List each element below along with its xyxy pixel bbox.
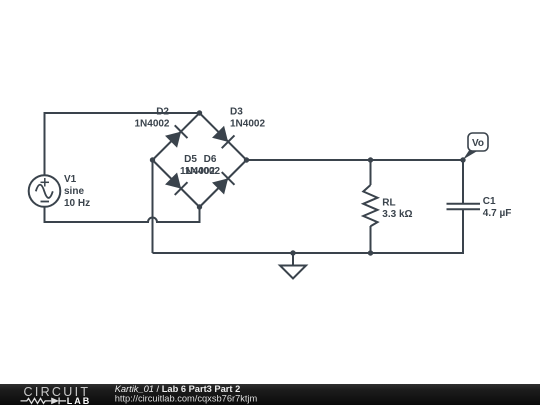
svg-text:3.3 kΩ: 3.3 kΩ: [382, 209, 412, 220]
svg-text:1N4002: 1N4002: [230, 119, 265, 130]
voltage source V1: [29, 175, 61, 207]
wire V1 top to bridge top: [45, 113, 200, 175]
svg-text:10 Hz: 10 Hz: [64, 198, 90, 209]
svg-text:D2: D2: [156, 107, 169, 118]
svg-text:4.7 µF: 4.7 µF: [483, 208, 512, 219]
svg-text:RL: RL: [382, 197, 395, 208]
footer bar: [0, 384, 540, 405]
capacitor C1 plates: [447, 204, 481, 210]
wire bridge left down to ground rail: [152, 160, 154, 253]
diode D3: [212, 125, 235, 148]
node junction bridge top: [197, 110, 202, 115]
wire RL top lead: [370, 160, 372, 185]
svg-text:D3: D3: [230, 107, 243, 118]
svg-text:LAB: LAB: [67, 396, 92, 405]
svg-text:Vo: Vo: [472, 138, 484, 149]
wire RL bottom lead: [370, 226, 372, 253]
wire bridge edge bottom-right: [200, 160, 247, 207]
logo mini circuit resistor and diode: [21, 398, 67, 405]
svg-text:V1: V1: [64, 174, 77, 185]
wire bridge edge left-top: [153, 113, 200, 160]
svg-text:D6: D6: [204, 154, 217, 165]
node Vo flag: [463, 151, 477, 160]
diode D2: [165, 125, 188, 148]
svg-text:sine: sine: [64, 186, 84, 197]
node junction bridge bottom: [197, 204, 202, 209]
wire V1 bottom with hop to bridge bottom: [45, 207, 200, 222]
node junction RL top: [368, 157, 373, 162]
node junction bridge right: [244, 157, 249, 162]
svg-text:D5: D5: [184, 154, 197, 165]
wire bridge right to Vo node: [247, 159, 464, 161]
wire bridge edge top-right: [200, 113, 247, 160]
node junction Vo: [460, 157, 465, 162]
ground: [280, 253, 306, 279]
svg-text:http://circuitlab.com/cqxsb76r: http://circuitlab.com/cqxsb76r7ktjm: [115, 394, 258, 404]
node junction ground: [290, 250, 295, 255]
wire bridge edge left-bottom: [153, 160, 200, 207]
svg-text:1N4002: 1N4002: [185, 166, 220, 177]
svg-text:1N4002: 1N4002: [134, 119, 169, 130]
diode D6: [212, 172, 235, 195]
wire C1 bottom to ground rail: [153, 209, 464, 253]
node junction bridge left: [150, 157, 155, 162]
node junction RL bottom: [368, 250, 373, 255]
wire Vo node down to C1: [462, 160, 464, 204]
svg-text:C1: C1: [483, 196, 496, 207]
resistor RL zigzag: [363, 185, 377, 226]
diode D5: [165, 172, 188, 195]
